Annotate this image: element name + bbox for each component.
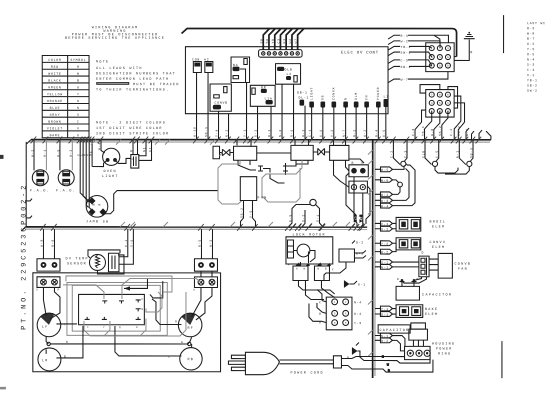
grid A internal links (426, 35, 440, 66)
svg-text:C-2: C-2 (449, 128, 453, 136)
svg-text:R: R (129, 149, 133, 152)
flag O-2b (375, 226, 396, 231)
oven light wire labels (97, 142, 152, 152)
svg-text:R: R (77, 65, 80, 69)
svg-text:SW-2: SW-2 (527, 89, 538, 93)
svg-text:NOTE: NOTE (96, 60, 109, 64)
svg-text:R-1: R-1 (267, 129, 271, 137)
dlb relay 2 (291, 145, 313, 160)
convection element (396, 238, 446, 255)
lead path bar symbol (96, 82, 129, 85)
flag SW-1 (388, 51, 426, 56)
svg-text:N-4: N-4 (527, 57, 535, 61)
svg-text:WHITE: WHITE (48, 72, 61, 76)
svg-text:W-3: W-3 (69, 149, 73, 157)
svg-text:C-5: C-5 (435, 150, 439, 158)
svg-text:S-1: S-1 (316, 214, 320, 222)
svg-text:SB-1: SB-1 (401, 65, 412, 69)
mid terminal block open (349, 181, 368, 193)
oven light wires (92, 140, 151, 167)
jamb wire labels (76, 151, 92, 156)
svg-text:YB: YB (271, 38, 275, 43)
sensor wires from bus (43, 229, 212, 264)
svg-text:CLB: CLB (421, 150, 425, 158)
svg-text:W-7: W-7 (401, 78, 409, 82)
relay K1 inside control (192, 57, 201, 72)
svg-text:N-1: N-1 (381, 265, 389, 269)
flag R-3 (388, 34, 448, 43)
svg-text:Y-2: Y-2 (381, 242, 389, 246)
svg-text:R-2: R-2 (352, 129, 356, 137)
svg-text:TO THEIR TERMINATIONS.: TO THEIR TERMINATIONS. (96, 89, 169, 93)
grid B drops to bus (415, 122, 491, 140)
interconnect grid B pins (429, 92, 450, 113)
svg-text:B: B (77, 79, 80, 83)
svg-text:R-2: R-2 (381, 250, 389, 254)
svg-text:ELEM: ELEM (425, 313, 438, 317)
note 2 digit colors text (96, 121, 169, 136)
svg-text:B: B (64, 355, 66, 358)
svg-text:Y: Y (64, 323, 66, 326)
svg-text:OLB: OLB (285, 68, 293, 72)
svg-text:W2: W2 (288, 38, 292, 43)
right col flag N-1b (375, 333, 405, 346)
svg-text:U: U (77, 133, 80, 137)
svg-text:N1: N1 (142, 147, 146, 152)
power cord plug (228, 352, 279, 374)
svg-text:SW-1: SW-1 (401, 51, 412, 55)
svg-text:V1: V1 (148, 147, 152, 152)
flag W-3 (375, 169, 409, 203)
ov temp sensor probe (88, 250, 124, 274)
main horizontal bus L1 (27, 140, 491, 144)
svg-text:O: O (77, 99, 80, 103)
svg-text:R-4: R-4 (374, 129, 378, 137)
ov temp sensor label (65, 257, 88, 266)
junction circle (398, 182, 403, 187)
svg-text:DESIGNATION NUMBERS THAT: DESIGNATION NUMBERS THAT (96, 72, 176, 76)
svg-text:OV TEMP: OV TEMP (65, 257, 88, 261)
svg-text:S-3: S-3 (527, 63, 535, 67)
housing power ring (405, 343, 456, 360)
vertical bus hatches (368, 150, 373, 357)
right col flag N-1 (375, 264, 419, 269)
svg-text:LIGHT: LIGHT (310, 87, 314, 100)
interconnect grid A box (426, 43, 454, 72)
dlb relay 3 (330, 145, 349, 160)
svg-text:FAN: FAN (257, 196, 267, 200)
svg-text:LAST WI: LAST WI (527, 21, 546, 25)
right col flag S-1 (375, 260, 419, 265)
svg-text:BEFORE SERVICING THE APPLIANCE: BEFORE SERVICING THE APPLIANCE (65, 37, 165, 41)
capacitor 2 (409, 323, 428, 346)
svg-text:LIGHT: LIGHT (102, 175, 119, 179)
svg-text:CAPACITOR: CAPACITOR (422, 294, 452, 298)
svg-text:COLOR: COLOR (48, 58, 61, 62)
svg-text:N-7: N-7 (342, 129, 346, 137)
relay board extra wires (257, 153, 349, 187)
bottom right vertical line (501, 341, 503, 378)
svg-text:Y-1: Y-1 (243, 129, 247, 137)
svg-text:BR: BR (261, 85, 266, 89)
flag W-2 (388, 39, 440, 48)
svg-text:R: R (175, 320, 177, 323)
svg-text:G-1: G-1 (358, 283, 366, 287)
svg-text:B: B (352, 161, 355, 165)
interconnect grid B box (426, 90, 454, 118)
svg-text:SENSOR: SENSOR (67, 262, 87, 266)
relay K2 inside control (204, 57, 213, 72)
svg-text:ORANGE: ORANGE (47, 99, 63, 103)
svg-text:W-3: W-3 (381, 199, 389, 203)
svg-text:O-5: O-5 (356, 252, 364, 256)
lock motor box (286, 237, 333, 264)
svg-text:RF: RF (187, 327, 194, 331)
separator line (503, 15, 505, 53)
svg-text:ENTER COMMON LEAD PATH: ENTER COMMON LEAD PATH (96, 78, 169, 82)
right col flag Y-2 (375, 241, 396, 246)
door switch 2 (421, 140, 439, 167)
dlb relay 1 (234, 146, 257, 160)
door sw 2/3 harness (435, 166, 469, 174)
svg-text:W-8: W-8 (527, 31, 535, 35)
oven light socket (131, 155, 139, 169)
svg-text:Y: Y (77, 92, 80, 96)
svg-text:V-1: V-1 (381, 222, 389, 226)
svg-text:ELEM: ELEM (432, 226, 445, 230)
svg-text:Y-5: Y-5 (359, 214, 363, 222)
flag SB-1 (388, 65, 426, 70)
svg-text:BLACK: BLACK (48, 79, 61, 83)
svg-text:R-1: R-1 (43, 149, 47, 157)
scan mark bottom left (0, 387, 6, 390)
svg-text:POWER CORD: POWER CORD (290, 372, 323, 376)
term block top-right inner (193, 277, 218, 292)
svg-text:G: G (77, 85, 80, 89)
flag C-3 (388, 58, 426, 63)
svg-text:S: S (77, 113, 80, 117)
svg-text:C: C (168, 355, 170, 358)
svg-text:N-1: N-1 (456, 150, 460, 158)
color code table (42, 56, 89, 138)
svg-text:CONVX: CONVX (429, 241, 446, 245)
bake element (396, 305, 438, 318)
svg-text:R-3: R-3 (401, 34, 409, 38)
svg-text:ELEM: ELEM (432, 246, 445, 250)
svg-text:SB-2: SB-2 (240, 207, 244, 218)
flag YB-1 (388, 45, 426, 50)
right col flag Y-1 (375, 306, 396, 311)
svg-text:G: G (181, 341, 183, 344)
relay box CONVB (210, 84, 231, 111)
svg-text:Y-2: Y-2 (330, 129, 334, 137)
svg-text:YB-1: YB-1 (527, 78, 538, 82)
svg-text:V-2: V-2 (124, 239, 128, 247)
svg-text:W-10: W-10 (193, 126, 197, 137)
svg-text:2ND DIGIT STRIPE COLOR: 2ND DIGIT STRIPE COLOR (96, 132, 169, 136)
svg-text:W7: W7 (294, 38, 298, 43)
svg-text:LR: LR (42, 359, 49, 363)
svg-text:R-6: R-6 (290, 129, 294, 137)
svg-text:Y-5: Y-5 (249, 210, 253, 218)
svg-text:V: V (77, 126, 80, 130)
svg-text:O-5: O-5 (382, 129, 386, 137)
svg-text:N-2: N-2 (225, 129, 229, 137)
contact row in control (297, 87, 389, 108)
switch contacts (85, 300, 141, 320)
svg-text:SW: SW (265, 38, 269, 43)
connector riser labels (259, 38, 297, 43)
svg-text:R-5: R-5 (198, 239, 202, 247)
note lead path text (96, 60, 180, 92)
ov temp sensor terminal right (194, 259, 217, 277)
svg-text:C-2: C-2 (390, 150, 394, 158)
wire drop labels control to bus (193, 126, 386, 137)
svg-text:C: C (319, 300, 322, 304)
svg-text:DLM: DLM (354, 92, 358, 100)
svg-text:BAKE: BAKE (425, 308, 438, 312)
svg-text:Y-3: Y-3 (354, 321, 362, 325)
svg-text:L1A: L1A (265, 96, 273, 100)
svg-text:O-5: O-5 (527, 52, 535, 56)
svg-text:GRAY: GRAY (50, 113, 61, 117)
burner LF (37, 313, 61, 337)
flag W-6 (375, 177, 399, 182)
flag V-1 (375, 221, 396, 226)
right col flag B-2 (375, 338, 405, 351)
svg-text:CONVX: CONVX (332, 87, 336, 100)
relay interwires (220, 140, 346, 183)
convection fan motor (429, 253, 471, 278)
right vertical bus (373, 140, 375, 378)
burner RF (178, 313, 202, 337)
switch housing inner (79, 294, 145, 324)
svg-text:BROIL: BROIL (429, 221, 446, 225)
svg-text:FAN: FAN (458, 268, 468, 272)
svg-text:F.A.D.: F.A.D. (56, 189, 76, 193)
left frame stub 1 (26, 199, 32, 201)
svg-text:SYMBOL: SYMBOL (70, 58, 86, 62)
ov temp sensor terminal left (37, 259, 60, 271)
svg-text:Y-6: Y-6 (130, 239, 134, 247)
svg-text:R-7: R-7 (353, 214, 357, 222)
svg-text:O: O (319, 312, 322, 316)
svg-text:N: N (77, 106, 80, 110)
svg-text:C-1: C-1 (403, 150, 407, 158)
svg-text:BARE: BARE (50, 133, 61, 137)
svg-text:Y-5: Y-5 (527, 47, 535, 51)
selector arrow (124, 278, 163, 298)
contact DL-1 (299, 96, 310, 106)
svg-text:B-5: B-5 (288, 214, 292, 222)
svg-text:CON: CON (192, 57, 200, 61)
switch housing outer gray (67, 283, 167, 336)
svg-text:W-2: W-2 (363, 129, 367, 137)
lock motor ground (344, 281, 366, 288)
svg-text:R-3: R-3 (527, 26, 535, 30)
svg-text:N: N (344, 97, 348, 100)
svg-text:O-2: O-2 (356, 241, 364, 245)
svg-text:O-1: O-1 (381, 313, 389, 317)
svg-text:R3: R3 (282, 38, 286, 43)
mid terminal block filled (349, 161, 368, 177)
cord ground (347, 343, 360, 360)
broil element (396, 217, 446, 231)
svg-text:R-5: R-5 (56, 149, 60, 157)
svg-text:V-1: V-1 (527, 73, 535, 77)
svg-text:W-4: W-4 (381, 204, 389, 208)
fuse FAD 1 (30, 140, 50, 194)
door switch 3 (456, 140, 474, 167)
svg-text:C3: C3 (277, 38, 281, 43)
svg-text:YELLOW: YELLOW (47, 92, 63, 96)
svg-text:CONVB: CONVB (454, 263, 471, 267)
svg-text:SB-3: SB-3 (469, 147, 473, 158)
svg-text:R-8: R-8 (51, 239, 55, 247)
svg-text:RED: RED (51, 65, 59, 69)
svg-text:NE: NE (88, 151, 92, 156)
svg-text:O-3: O-3 (254, 129, 258, 137)
svg-text:BA: BA (233, 63, 238, 67)
svg-text:C-4: C-4 (411, 128, 415, 136)
term block top-left inner (36, 277, 60, 292)
lock aux box (339, 241, 366, 263)
svg-text:POWER: POWER (376, 87, 380, 100)
fuse FAD 2 (56, 140, 76, 194)
svg-text:O-2: O-2 (381, 227, 389, 231)
svg-text:N: N (66, 341, 68, 344)
relay board frame hatches (91, 140, 215, 145)
fan connector (419, 256, 429, 277)
connector riser wires (263, 28, 304, 49)
svg-text:L1: L1 (384, 95, 389, 99)
mid band left frame wire (25, 142, 27, 227)
svg-text:F.A.D.: F.A.D. (30, 189, 50, 193)
title warning text block (65, 26, 165, 41)
svg-text:1ST DIGIT WIRE COLOR: 1ST DIGIT WIRE COLOR (96, 127, 163, 131)
svg-text:B-7: B-7 (527, 37, 535, 41)
bowtie contact 2 (318, 148, 325, 155)
svg-text:Y-4: Y-4 (215, 129, 219, 137)
bus L2 hatches (120, 222, 350, 227)
svg-text:S-2: S-2 (301, 214, 305, 222)
sensor wire labels (40, 239, 213, 247)
connector P1 strip (259, 50, 303, 58)
svg-text:DL-1: DL-1 (299, 96, 310, 100)
svg-text:BLUE: BLUE (50, 106, 61, 110)
lock cam switches (288, 263, 334, 281)
svg-text:B: B (470, 50, 473, 54)
bowtie contact 1 (222, 149, 230, 156)
dlb relay 0 (213, 146, 220, 159)
capacitor 2 label box (378, 325, 410, 333)
svg-text:BROWN: BROWN (48, 120, 61, 124)
surface unit box (33, 273, 221, 372)
svg-text:ELEC OV CONT: ELEC OV CONT (341, 52, 379, 56)
svg-text:N-6: N-6 (278, 129, 282, 137)
svg-text:B-2: B-2 (381, 339, 389, 343)
svg-text:HOUSING: HOUSING (432, 343, 455, 347)
interconnect grid A pins (429, 46, 450, 68)
power cord (279, 356, 341, 376)
surface unit wiring (43, 287, 212, 358)
svg-text:POWER: POWER (436, 348, 453, 352)
diagonal feeders to vertical bus (346, 159, 370, 224)
svg-text:SB-1: SB-1 (204, 126, 208, 137)
jamb switch wires (80, 140, 218, 214)
svg-text:OB: OB (321, 95, 325, 100)
svg-text:W: W (77, 72, 80, 76)
svg-text:JAMB SW: JAMB SW (86, 220, 109, 224)
main horizontal bus L2 (21, 227, 367, 231)
svg-text:OVEN: OVEN (104, 170, 117, 174)
flag W-1 (375, 187, 400, 197)
svg-text:CAPACITOR: CAPACITOR (379, 329, 409, 333)
svg-text:YB-1: YB-1 (401, 45, 412, 49)
svg-text:#2: #2 (204, 57, 209, 61)
relay box OLB L2 (276, 64, 301, 85)
svg-text:W-2: W-2 (30, 149, 34, 157)
svg-text:O-4: O-4 (354, 312, 362, 316)
capacitor 1 (396, 277, 452, 300)
surface unit gray wiring (63, 276, 201, 336)
ground at grid A (454, 32, 474, 61)
flag W-4 (375, 165, 415, 208)
svg-text:RB: RB (187, 358, 194, 362)
svg-text:G-2: G-2 (527, 42, 535, 46)
svg-text:ALL LEADS WITH: ALL LEADS WITH (96, 67, 143, 71)
svg-text:LF: LF (42, 326, 49, 330)
svg-text:C-3: C-3 (401, 58, 409, 62)
svg-text:MUST BE TRACED: MUST BE TRACED (133, 83, 180, 87)
svg-text:W-5: W-5 (381, 168, 389, 172)
svg-text:O-6: O-6 (319, 129, 323, 137)
svg-text:CONVB: CONVB (215, 101, 228, 105)
cord wires to ring (341, 354, 433, 372)
svg-text:N-4: N-4 (354, 300, 362, 304)
surface wire letter labels (64, 320, 183, 358)
flag W-7 (388, 72, 448, 83)
svg-text:VIOLET: VIOLET (47, 126, 63, 130)
wire drops control to bus (197, 72, 386, 139)
svg-text:NOTE - 2 DIGIT COLORS: NOTE - 2 DIGIT COLORS (96, 121, 166, 125)
svg-text:CN: CN (364, 95, 368, 100)
svg-text:D: D (421, 251, 424, 255)
svg-text:W-2: W-2 (401, 39, 409, 43)
svg-text:SB: SB (259, 38, 263, 43)
svg-text:W-6: W-6 (381, 178, 389, 182)
thermal cutout (288, 199, 323, 227)
svg-text:C-1: C-1 (308, 129, 312, 137)
relay box BA (231, 57, 250, 83)
svg-text:L2: L2 (287, 72, 292, 76)
top collector bus wire (182, 28, 457, 56)
svg-text:W-1: W-1 (301, 129, 305, 137)
left frame stub 2 (26, 216, 32, 218)
svg-text:Y-1: Y-1 (381, 307, 389, 311)
jamb switch (86, 196, 109, 225)
burner LR (38, 348, 61, 371)
bus L1 junction ticks (31, 137, 482, 144)
svg-text:GREEN: GREEN (48, 85, 61, 89)
oven light (102, 148, 120, 179)
mid right drop wires (353, 177, 363, 227)
svg-text:W-9: W-9 (40, 239, 44, 247)
right col flag R-2 (375, 247, 396, 254)
relay box BR (250, 85, 275, 106)
door switch 1 (390, 140, 408, 167)
svg-text:C-4: C-4 (527, 68, 535, 72)
